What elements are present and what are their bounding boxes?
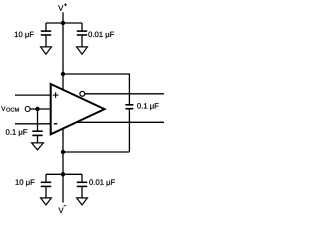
value label 0.01 uF (bottom): [89, 179, 115, 186]
junction bottom rail: [61, 172, 65, 176]
wire op-amp V+ to right bypass bus: [63, 74, 129, 104]
junction V- pin / right bus return: [61, 150, 65, 154]
wire right bus return: [63, 151, 129, 153]
junction op-amp V+ pin: [61, 72, 65, 76]
wire V+ down to op-amp supply pin: [62, 23, 64, 90]
capacitor 10 uF (V+ bulk): [41, 23, 51, 47]
node VOCM label: [1, 106, 18, 111]
node V- (negative supply label): [58, 208, 63, 213]
value label 0.01 uF (top): [88, 32, 114, 39]
wire VOCM to op-amp: [30, 108, 50, 110]
ground (bottom-right): [77, 198, 88, 205]
op-amp - input marker: [54, 123, 58, 125]
ground (bottom-left): [41, 198, 52, 205]
op-amp + input marker: [53, 92, 59, 98]
wire VOCM cap lead: [37, 109, 39, 131]
ground (VOCM cap): [32, 143, 44, 150]
wire noninverting input: [15, 94, 51, 96]
junction top rail: [61, 21, 65, 25]
capacitor 10 uF (V- bulk): [41, 174, 51, 198]
wire op-amp V- pin down to V-: [62, 128, 64, 202]
node V+ (positive supply label): [58, 5, 63, 10]
V- superscript minus: [64, 205, 67, 207]
capacitor 0.01 uF (V+ HF bypass): [77, 23, 87, 47]
value label 0.1 uF (VOCM): [6, 129, 27, 136]
capacitor 0.1 uF (supply-to-supply, right): [125, 105, 133, 152]
value label 10 uF (bottom): [16, 179, 35, 186]
wire inverting input: [15, 123, 51, 125]
wire noninverted output: [77, 121, 165, 123]
value label 0.1 uF (right): [137, 103, 158, 110]
junction VOCM: [35, 107, 39, 111]
op-amp fully differential amplifier: [51, 84, 105, 134]
wire top decoupling rail: [46, 22, 82, 24]
ground (top-right): [77, 47, 88, 54]
capacitor 0.01 uF (V- HF bypass): [77, 174, 87, 198]
wire bottom decoupling rail: [46, 173, 82, 175]
terminal VOCM open circle: [25, 107, 30, 112]
wire V+ lead down: [62, 12, 64, 23]
wire inverted output: [85, 93, 164, 95]
ground (top-left): [41, 47, 52, 54]
capacitor 0.1 uF (VOCM): [32, 131, 42, 143]
inverting output bubble: [80, 91, 85, 96]
V+ superscript plus: [64, 3, 67, 6]
value label 10 uF (top): [15, 32, 34, 39]
